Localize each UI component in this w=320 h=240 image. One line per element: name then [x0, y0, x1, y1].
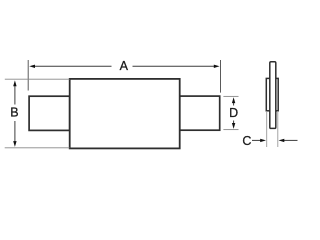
dim D top extension line: [223, 95, 238, 97]
dim C left arrow: [252, 139, 261, 141]
dim A right extension line: [220, 60, 222, 93]
dim C left extension line: [266, 111, 268, 147]
dim B line: [14, 85, 16, 105]
side view: tab edge-on (wide rect): [266, 78, 278, 110]
dim B top arrowhead: [13, 80, 16, 86]
side view: body edge-on (thin rect): [270, 62, 276, 129]
svg-text:A: A: [120, 59, 129, 73]
dim D top arrowhead: [232, 97, 235, 103]
dim A line: [34, 65, 112, 67]
dim C right extension line: [277, 111, 279, 147]
dim D bottom extension line: [223, 129, 238, 131]
dim C right arrow: [284, 139, 298, 141]
dim B bottom extension line: [5, 147, 70, 149]
svg-text:C: C: [242, 134, 251, 148]
dim D line: [233, 101, 235, 106]
front view: right tab: [180, 96, 220, 130]
svg-text:B: B: [10, 106, 18, 120]
front view: left tab: [29, 96, 70, 130]
svg-text:D: D: [229, 106, 238, 120]
dim D bottom arrowhead: [232, 123, 235, 129]
dim B top extension line: [5, 78, 70, 80]
front view: body: [70, 79, 180, 148]
dim A left extension line: [27, 60, 29, 91]
dim A right arrowhead: [214, 65, 220, 68]
dim B bottom arrowhead: [13, 141, 16, 147]
dim A left arrowhead: [29, 65, 35, 68]
